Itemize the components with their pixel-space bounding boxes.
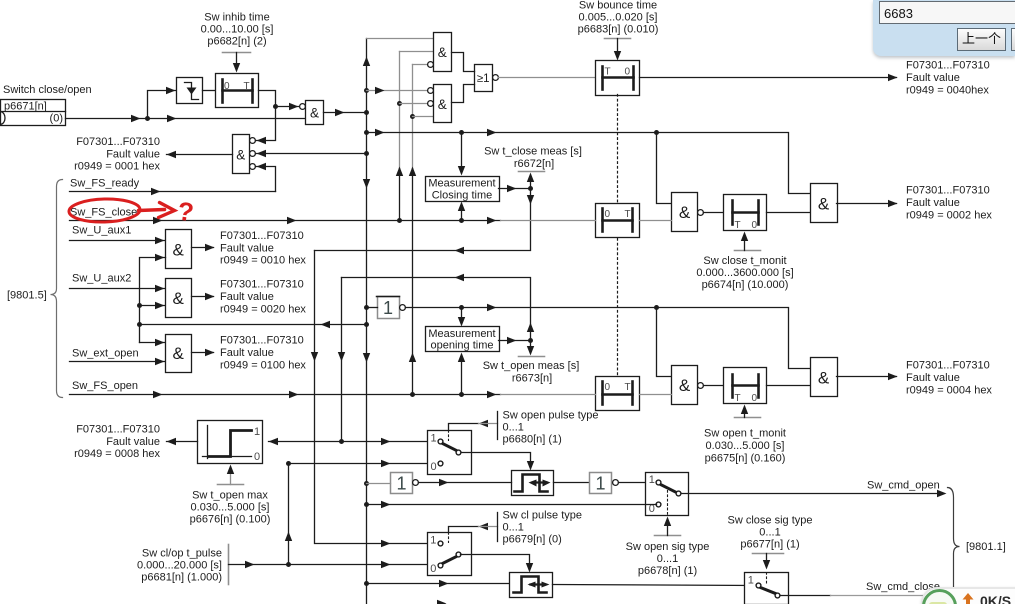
svg-text:&: & <box>438 97 447 112</box>
svg-text:r0949 = 0004 hex: r0949 = 0004 hex <box>906 384 992 396</box>
svg-text:p6683[n] (0.010): p6683[n] (0.010) <box>578 24 659 36</box>
AND gate U13 (ext open) <box>166 335 192 373</box>
svg-text:&: & <box>173 241 185 260</box>
wire bus into U8 <box>364 305 378 310</box>
label F07301 fault 0001 <box>74 136 160 173</box>
wire drop to Measurement opening <box>458 308 465 327</box>
label Sw close sig type p6677[n] <box>728 514 813 550</box>
AND gate U4 (lower) <box>428 85 452 123</box>
svg-text:Fault value: Fault value <box>220 347 274 359</box>
svg-text:1: 1 <box>396 474 406 494</box>
switch S1 (open pulse select) <box>428 431 472 475</box>
svg-text:Sw open sig type: Sw open sig type <box>626 541 710 553</box>
svg-text:0: 0 <box>752 220 758 231</box>
dotted wire bounce timer to open measuring timer <box>617 95 619 377</box>
wire U1 output to main bus <box>324 109 370 116</box>
wire U2 input mid from bus <box>256 150 370 157</box>
pulse shaper P2 <box>510 573 553 598</box>
wire monitor open to U10 <box>767 385 811 387</box>
svg-text:r0949 = 0010 hex: r0949 = 0010 hex <box>220 255 306 267</box>
debounce timer block p6683 (T 0) <box>596 61 640 96</box>
svg-text:F07301...F07310: F07301...F07310 <box>220 279 304 291</box>
svg-text:1: 1 <box>383 298 393 318</box>
wire U12 output <box>192 293 215 300</box>
svg-text:&: & <box>679 203 691 222</box>
annotation red ellipse on Sw_FS_close <box>69 198 175 223</box>
label F07301 fault 0010 <box>220 230 306 267</box>
svg-text:&: & <box>438 45 447 60</box>
svg-text:Sw t_open max: Sw t_open max <box>192 490 268 502</box>
svg-text:&: & <box>679 376 691 395</box>
label F07301 fault 0020 <box>220 279 306 316</box>
svg-text:p6678[n] (1): p6678[n] (1) <box>638 565 697 577</box>
wire U4 output to U5 <box>452 85 475 103</box>
wire U5 output to bounce timer <box>499 77 596 79</box>
AND gate U3 (top) <box>428 33 452 72</box>
svg-text:Sw close sig type: Sw close sig type <box>728 514 813 526</box>
svg-text:0...1: 0...1 <box>503 422 524 434</box>
svg-text:Fault value: Fault value <box>906 372 960 384</box>
svg-text:Sw cl/op t_pulse: Sw cl/op t_pulse <box>142 548 222 560</box>
monitoring timer close p6674 (T 0) <box>724 195 767 231</box>
svg-text:1: 1 <box>595 473 605 493</box>
debounce element block <box>177 78 203 104</box>
AND gate U10 (fault 0004 output) <box>811 358 838 397</box>
svg-text:Sw_FS_ready: Sw_FS_ready <box>70 177 140 189</box>
brace [9801.1] <box>948 488 960 589</box>
wire U3 output to U5 <box>452 53 475 72</box>
AND gate U9 (open) <box>672 366 704 405</box>
svg-text:&: & <box>173 344 185 363</box>
svg-text:Closing time: Closing time <box>432 189 493 201</box>
svg-text:opening time: opening time <box>431 340 494 352</box>
label Sw t_close meas r6672[n] <box>484 146 582 170</box>
svg-text:F07301...F07310: F07301...F07310 <box>906 360 990 372</box>
wire p6671 output <box>66 115 306 122</box>
svg-text:F07301...F07310: F07301...F07310 <box>220 230 304 242</box>
label Sw open pulse type p6680[n] <box>503 410 599 446</box>
wire r6673 loop up-left to comparator and switch1 <box>338 274 534 444</box>
svg-text:&: & <box>818 195 830 214</box>
inverter 1-gate U15 <box>590 473 619 494</box>
AND gate U1 (inhibit) <box>306 101 324 125</box>
svg-text:1: 1 <box>431 433 437 445</box>
svg-text:Sw open t_monit: Sw open t_monit <box>704 428 786 440</box>
wire bus to U14 <box>364 481 391 486</box>
download speed pill overlay <box>921 587 1015 604</box>
label Sw t_open meas r6673[n] <box>483 360 580 384</box>
parameter arrow Sw close sig type p6677 <box>753 554 784 570</box>
svg-text:Fault value: Fault value <box>220 242 274 254</box>
wire drop to close AND in1 <box>657 133 672 204</box>
wire P2 output to switch S4 <box>553 585 757 586</box>
wire Sw_U_aux2 <box>70 285 166 292</box>
brace [9801.5] <box>51 180 63 398</box>
wire debounce to inhib timer <box>203 90 216 92</box>
find toolbar panel <box>873 0 1015 56</box>
wire distribution line y132 <box>364 129 811 194</box>
wire S1 control from p6680 <box>449 412 498 440</box>
wire branch to debounce block <box>148 87 177 119</box>
parameter bar Sw t_open max p6676 <box>218 465 244 485</box>
wire p6681 riser x288 <box>285 464 292 568</box>
wire U14 to P1 <box>419 479 512 486</box>
svg-text:1: 1 <box>748 574 754 586</box>
monitoring timer open p6675 (T 0) <box>724 368 767 405</box>
svg-text:1: 1 <box>254 426 260 438</box>
svg-text:0: 0 <box>431 461 437 473</box>
svg-text:0: 0 <box>625 67 631 78</box>
svg-text:F07301...F07310: F07301...F07310 <box>220 335 304 347</box>
svg-text:1: 1 <box>430 534 436 546</box>
wire U2 input bottom from Sw_FS_ready <box>256 163 276 192</box>
svg-text:F07301...F07310: F07301...F07310 <box>76 423 160 435</box>
svg-text:≥1: ≥1 <box>477 73 490 85</box>
wire pulse-time line y463 <box>286 460 438 467</box>
parameter bar Sw close t_monit p6674 <box>735 232 761 251</box>
label Sw t_open max p6676[n] <box>190 490 271 526</box>
wire r6672 loop down-left to switch2 <box>311 189 534 548</box>
wire U10 output to fault 0004 <box>837 373 898 380</box>
svg-text:0.030...5.000 [s]: 0.030...5.000 [s] <box>191 502 270 514</box>
svg-text:p6680[n] (1): p6680[n] (1) <box>503 434 562 446</box>
BICO input connector p6671[n] <box>1 100 66 126</box>
svg-text:Sw close t_monit: Sw close t_monit <box>703 255 786 267</box>
svg-text:0: 0 <box>430 563 436 575</box>
svg-text:Sw_U_aux2: Sw_U_aux2 <box>72 273 131 285</box>
inverter 1-gate U14 <box>391 473 419 494</box>
label Sw close t_monit p6674[n] <box>696 255 793 291</box>
pulse shaper P1 <box>512 471 554 496</box>
wire S2 output to pulse2 control <box>461 555 534 573</box>
svg-text:r0949 = 0008 hex: r0949 = 0008 hex <box>74 448 160 460</box>
svg-text:r6672[n]: r6672[n] <box>514 158 554 170</box>
wire P1 to U15 <box>554 482 590 484</box>
AND gate U7 (fault 0002 output) <box>811 184 838 223</box>
wire inhib timer output to AND gate <box>259 91 306 111</box>
svg-text:T: T <box>605 67 611 78</box>
wire comparator output to fault 0008 <box>167 438 198 445</box>
svg-text:&: & <box>236 148 245 163</box>
svg-text:Sw cl pulse type: Sw cl pulse type <box>503 509 582 521</box>
label 0K/S <box>980 593 1011 604</box>
svg-text:r6673[n]: r6673[n] <box>512 373 552 385</box>
svg-text:F07301...F07310: F07301...F07310 <box>906 60 990 72</box>
wire S2 control from p6679 <box>449 513 498 542</box>
svg-text:Sw_FS_open: Sw_FS_open <box>72 380 138 392</box>
node r6672 (Sw t_close meas) <box>499 172 545 193</box>
wire U11 output <box>192 244 215 251</box>
wire measured open time into comparator and switch1 pos1 <box>269 438 438 445</box>
svg-text:r0949 = 0020 hex: r0949 = 0020 hex <box>220 304 306 316</box>
svg-text:0.000...3600.000 [s]: 0.000...3600.000 [s] <box>696 267 793 279</box>
svg-text:Sw_FS_close: Sw_FS_close <box>70 206 137 218</box>
svg-text:p6682[n] (2): p6682[n] (2) <box>207 36 266 48</box>
svg-text:p6671[n]: p6671[n] <box>4 100 47 112</box>
svg-text:Fault value: Fault value <box>106 148 160 160</box>
wire bus to lower AND bubble1 <box>364 87 428 94</box>
svg-text:[9801.1]: [9801.1] <box>966 541 1006 553</box>
svg-text:p6677[n] (1): p6677[n] (1) <box>740 538 799 550</box>
wire y584 bus to pulse2 <box>364 580 510 587</box>
wire bus to top AND input1 <box>367 38 434 40</box>
svg-text:0.030...5.000 [s]: 0.030...5.000 [s] <box>706 440 785 452</box>
label Sw inhib time p6682[n] <box>201 12 274 48</box>
label Sw bounce time p6683[n] <box>578 0 659 36</box>
svg-text:&: & <box>818 369 830 388</box>
wire S1 output to pulse1 control <box>462 453 535 471</box>
label Sw cl pulse type p6679[n] <box>503 509 582 545</box>
wire U13 output <box>192 349 215 356</box>
wire Sw_FS_open up into Measurement opening <box>458 353 465 398</box>
wire 0T open to U9 <box>640 394 672 396</box>
switch S2 (close pulse select) <box>428 533 472 576</box>
svg-text:0.000...20.000 [s]: 0.000...20.000 [s] <box>137 560 222 572</box>
svg-text:1: 1 <box>649 474 655 486</box>
switch S3 (open sig select) <box>646 473 689 516</box>
yellow-green leaf fragment <box>929 602 947 604</box>
wire S4 output Sw_cmd_close <box>781 595 949 597</box>
svg-text:Sw t_open meas [s]: Sw t_open meas [s] <box>483 360 580 372</box>
svg-text:0...1: 0...1 <box>503 521 524 533</box>
wire drop to open AND in1 <box>657 308 672 377</box>
wire U6 to monitor timer close <box>704 212 724 214</box>
green circle icon <box>922 589 957 604</box>
svg-text:p6674[n] (10.000): p6674[n] (10.000) <box>702 279 789 291</box>
measuring timer close (0 T) <box>596 204 640 238</box>
search input 6683 <box>879 1 1015 24</box>
svg-text:r0949 = 0002 hex: r0949 = 0002 hex <box>906 209 992 221</box>
svg-text:r0949 = 0040hex: r0949 = 0040hex <box>906 85 989 97</box>
parameter bar Sw bounce time p6683 <box>605 39 631 61</box>
bus Sw_FS_close gray vertical <box>397 52 434 169</box>
svg-text:Fault value: Fault value <box>906 72 960 84</box>
wire bus to enable chain y324 <box>140 321 370 328</box>
svg-text:0.005...0.020 [s]: 0.005...0.020 [s] <box>579 12 658 24</box>
svg-text:Sw_cmd_open: Sw_cmd_open <box>867 480 940 492</box>
parameter bar Sw inhib time p6682 <box>223 53 251 73</box>
wire Sw_ext_open <box>70 358 166 365</box>
svg-text:Sw t_close meas [s]: Sw t_close meas [s] <box>484 146 582 158</box>
svg-text:Sw_U_aux1: Sw_U_aux1 <box>72 225 131 237</box>
svg-text:0: 0 <box>254 451 260 463</box>
svg-text:p6676[n] (0.100): p6676[n] (0.100) <box>190 514 271 526</box>
svg-text:Sw open pulse type: Sw open pulse type <box>503 410 599 422</box>
button next sliver <box>1011 28 1015 51</box>
svg-text:0.00...10.00 [s]: 0.00...10.00 [s] <box>201 24 274 36</box>
parameter arrow Sw open sig type p6678 <box>655 517 681 536</box>
svg-text:Sw inhib time: Sw inhib time <box>204 12 269 24</box>
svg-text:Sw bounce time: Sw bounce time <box>579 0 657 12</box>
svg-text:0...1: 0...1 <box>657 553 678 565</box>
wire Sw_FS_open <box>70 391 596 398</box>
wire U9 to monitor timer open <box>704 385 724 387</box>
measuring timer open (0 T) <box>596 377 640 411</box>
orange up arrow <box>962 593 974 604</box>
svg-text:p6675[n] (0.160): p6675[n] (0.160) <box>705 452 786 464</box>
label F07301 fault 0008 <box>74 423 160 460</box>
AND gate U11 (aux1) <box>166 230 192 269</box>
label F07301 fault 0002 <box>906 185 992 222</box>
wire Sw_U_aux1 <box>70 237 166 244</box>
bus Sw_FS_open gray vertical <box>410 65 434 169</box>
label F07301 fault 0004 <box>906 360 992 397</box>
svg-text:p6679[n] (0): p6679[n] (0) <box>503 533 562 545</box>
node r6673 (Sw t_open meas) <box>499 337 545 357</box>
wire U2 input top from timer junction <box>256 107 276 145</box>
wire monitor close to U7 <box>767 212 811 214</box>
block Measurement opening time <box>426 327 500 352</box>
wire Sw_FS_close <box>70 217 596 224</box>
svg-text:T: T <box>625 209 631 220</box>
svg-text:Fault value: Fault value <box>906 197 960 209</box>
on-delay timer block p6682 (Sw inhib time) <box>216 74 259 108</box>
label Sw open t_monit p6675[n] <box>704 428 786 465</box>
wire S3 output Sw_cmd_open <box>682 490 947 497</box>
OR gate U5 <box>475 65 499 92</box>
svg-text:T: T <box>625 382 631 393</box>
block Measurement Closing time <box>426 177 500 202</box>
svg-text:r0949 = 0001 hex: r0949 = 0001 hex <box>74 161 160 173</box>
wire U7 output to fault 0002 <box>837 200 898 207</box>
svg-text:F07301...F07310: F07301...F07310 <box>906 185 990 197</box>
svg-text:[9801.5]: [9801.5] <box>7 289 47 301</box>
svg-text:&: & <box>173 289 185 308</box>
svg-text:T: T <box>735 220 741 231</box>
svg-text:0: 0 <box>752 393 758 404</box>
bus main vertical (U1 output distribution) <box>363 39 447 604</box>
svg-text:Measurement: Measurement <box>428 328 495 340</box>
AND gate U12 (aux2) <box>166 279 192 318</box>
label Sw open sig type p6678[n] <box>626 541 710 577</box>
wire y504 bus to S3 pos0 <box>364 501 657 508</box>
wire Sw_FS_ready <box>70 188 276 195</box>
parameter bar p6681 <box>228 545 230 585</box>
wire bounce timer output to fault 0040 <box>640 74 898 81</box>
wire drop to Measurement closing <box>458 133 465 176</box>
svg-text:p6681[n] (1.000): p6681[n] (1.000) <box>141 572 222 584</box>
svg-text:0...1: 0...1 <box>759 526 780 538</box>
svg-text:F07301...F07310: F07301...F07310 <box>76 136 160 148</box>
svg-text:Measurement: Measurement <box>428 178 495 190</box>
switch S4 (close sig select) <box>745 573 789 604</box>
svg-text:Fault value: Fault value <box>220 291 274 303</box>
annotation red question mark <box>176 196 195 228</box>
button previous <box>957 28 1006 51</box>
svg-text:&: & <box>310 106 319 121</box>
svg-text:(0): (0) <box>50 113 63 125</box>
wire U15 to switch S3 <box>619 482 657 484</box>
label F07301 fault 0040 <box>906 60 990 97</box>
parameter bar Sw open t_monit p6675 <box>735 405 761 418</box>
svg-text:Switch close/open: Switch close/open <box>3 84 92 96</box>
svg-text:Sw_ext_open: Sw_ext_open <box>72 348 139 360</box>
wire U8 output line y307 <box>406 304 811 369</box>
wire enable chain vertical x140 <box>137 254 166 346</box>
label F07301 fault 0100 <box>220 335 306 372</box>
wire U2 output to fault text <box>167 151 233 158</box>
wire 0T close to U6 <box>640 220 672 222</box>
wire p6681 to switch2 pos0 <box>229 561 438 568</box>
svg-text:0: 0 <box>605 382 611 393</box>
svg-text:Fault value: Fault value <box>106 436 160 448</box>
svg-text:0: 0 <box>605 209 611 220</box>
wire Sw_FS_close up into Measurement closing <box>458 202 465 224</box>
svg-text:r0949 = 0100 hex: r0949 = 0100 hex <box>220 360 306 372</box>
label Sw cl/op t_pulse p6681[n] <box>137 548 222 584</box>
svg-text:?: ? <box>176 196 195 228</box>
svg-text:T: T <box>735 393 741 404</box>
AND gate U6 (close) <box>672 193 704 232</box>
inverter 1-gate U8 <box>377 297 406 319</box>
comparator block t_open max <box>198 421 263 464</box>
NAND gate U2 (fault 0001, three inverted inputs) <box>233 135 256 174</box>
